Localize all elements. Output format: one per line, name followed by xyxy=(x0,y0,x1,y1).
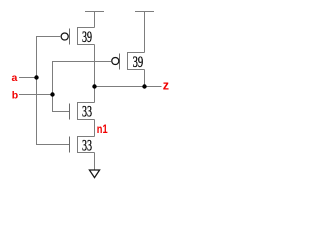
pmos M1 channel bracket 39 xyxy=(78,28,95,45)
svg-text:39: 39 xyxy=(82,29,92,46)
svg-text:33: 33 xyxy=(82,104,92,121)
pmos M2 gate bubble xyxy=(112,57,119,64)
svg-text:a: a xyxy=(12,72,18,84)
junction node a xyxy=(34,75,38,79)
svg-text:39: 39 xyxy=(133,54,144,71)
nmos M3 channel bracket 33 xyxy=(78,103,95,120)
wire b to M2 gate xyxy=(53,62,112,95)
pmos M1 gate bubble xyxy=(61,33,68,40)
wire M4 source to ground xyxy=(94,153,96,171)
nmos M4 gate bar xyxy=(69,137,71,153)
junction node z right xyxy=(142,84,146,88)
svg-text:z: z xyxy=(163,78,169,92)
vdd supply bar 2 xyxy=(135,11,154,13)
pmos M2 gate bar xyxy=(119,54,121,70)
wire M1 drain to z node and nmos chain xyxy=(94,45,96,103)
ground symbol xyxy=(89,170,99,178)
wire input b xyxy=(19,94,53,96)
wire vdd1 stem xyxy=(94,12,96,28)
svg-text:33: 33 xyxy=(82,137,92,154)
pmos M2 channel bracket 39 xyxy=(128,53,145,70)
wire M3 source to M4 drain (node n1) xyxy=(94,120,96,137)
svg-text:b: b xyxy=(12,89,18,101)
wire a to M1 gate xyxy=(37,37,62,78)
junction node b xyxy=(50,92,54,96)
vdd supply bar 1 xyxy=(85,11,104,13)
wire output z xyxy=(95,86,162,88)
nmos M3 gate bar xyxy=(69,104,71,120)
wire a net to nmos M4 gate xyxy=(37,78,70,145)
nmos M4 channel bracket 33 xyxy=(78,137,95,153)
svg-text:n1: n1 xyxy=(97,122,108,136)
wire vdd2 stem xyxy=(144,12,146,53)
wire b net to nmos M3 gate xyxy=(53,95,70,112)
wire input a xyxy=(19,77,37,79)
wire M2 drain to z xyxy=(144,70,146,87)
pmos M1 gate bar xyxy=(69,29,71,45)
junction node z left xyxy=(92,84,96,88)
